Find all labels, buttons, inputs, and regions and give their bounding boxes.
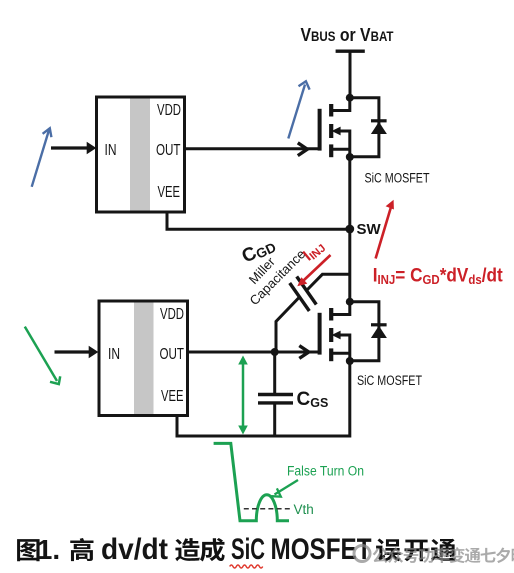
svg-text:SiC: SiC xyxy=(231,533,265,566)
svg-text:VEE: VEE xyxy=(161,388,184,405)
svg-text:VEE: VEE xyxy=(158,184,181,201)
svg-text:False Turn On: False Turn On xyxy=(287,464,364,480)
svg-text:OUT: OUT xyxy=(156,142,181,159)
svg-text:VDD: VDD xyxy=(160,306,184,323)
svg-text:dv/dt: dv/dt xyxy=(101,533,168,566)
svg-text:IN: IN xyxy=(108,346,120,363)
svg-text:1.: 1. xyxy=(37,534,60,565)
svg-text:SW: SW xyxy=(357,221,382,238)
svg-text:Vth: Vth xyxy=(294,502,314,517)
svg-text:SiC MOSFET: SiC MOSFET xyxy=(365,171,430,187)
svg-text:OUT: OUT xyxy=(160,346,185,363)
svg-text:IN: IN xyxy=(105,142,117,159)
svg-text:SiC MOSFET: SiC MOSFET xyxy=(357,373,422,389)
svg-text:VDD: VDD xyxy=(157,102,181,119)
